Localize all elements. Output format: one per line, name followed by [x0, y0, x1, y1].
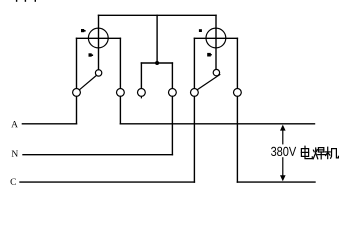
- wire: phase A right segment (welder top): [120, 123, 314, 125]
- wire: bracket right drop: [171, 63, 173, 88]
- meter M1 (left watt-hour meter circle): [88, 28, 108, 48]
- wire: right block right vertical (below terminal) to welder bottom: [236, 97, 238, 183]
- terminal T4: [169, 89, 177, 97]
- wire: left meter drop from bus through meter to hinge: [98, 15, 100, 69]
- char 机: [325, 151, 330, 153]
- wire: top bus: [99, 14, 217, 16]
- polarity mark M2 voltage coil: [207, 53, 212, 57]
- polarity mark M1 current coil: [81, 29, 86, 32]
- meter M2 (right watt-hour meter circle): [206, 28, 226, 48]
- terminal T1: [73, 89, 81, 97]
- char 焊: [312, 150, 315, 152]
- svg-text:C: C: [10, 178, 16, 188]
- switch S2 blade: [197, 75, 220, 90]
- wire: right meter drop from bus through meter to hinge: [215, 15, 217, 69]
- wire: left block right vertical (above terminal): [119, 38, 121, 88]
- switch S1 hinge: [95, 70, 101, 76]
- wire: phase A left segment: [22, 123, 76, 125]
- node: junction dot on bracket: [155, 61, 159, 65]
- wire: right block left vertical (below terminal) to C: [193, 97, 195, 183]
- wire: voltage-link bracket horizontal: [141, 62, 172, 64]
- top text fragment dots: [16, 0, 36, 2]
- terminal T2: [117, 89, 125, 97]
- wire: left block left vertical (above terminal): [76, 38, 78, 88]
- wire: phase N line: [23, 154, 172, 156]
- wire: left block right vertical (below terminal) to A: [119, 97, 121, 124]
- wire: right block horizontal through meter: [194, 37, 237, 39]
- wire: welder bottom line: [237, 181, 315, 183]
- switch S2 hinge: [213, 69, 219, 75]
- wire: middle voltage-link drop from bus: [156, 15, 158, 63]
- polarity mark M2 current coil: [199, 29, 202, 32]
- terminal T6: [234, 89, 242, 97]
- polarity mark M1 voltage coil: [89, 53, 94, 56]
- svg-text:A: A: [11, 120, 18, 130]
- wire: stub below T3: [140, 97, 142, 98]
- dimension arrow 380V (double headed): [282, 130, 284, 176]
- wire: right block left vertical (above terminal): [193, 38, 195, 88]
- wire: bracket left drop: [140, 63, 142, 88]
- label 电焊机 (hand drawn strokes): [301, 146, 338, 159]
- terminal T3: [138, 89, 146, 97]
- svg-text:380V: 380V: [271, 144, 297, 159]
- terminal T5: [191, 89, 199, 97]
- wire: N drop below middle-right terminal: [171, 97, 173, 155]
- wire: phase C line: [20, 181, 194, 183]
- wire: left block left vertical (below terminal) to A: [76, 97, 78, 124]
- svg-text:N: N: [11, 150, 18, 160]
- wire: left block horizontal through meter: [77, 37, 121, 39]
- char 电: [301, 149, 308, 157]
- wire: right block right vertical (above terminal): [236, 38, 238, 88]
- switch S1 blade: [79, 76, 96, 90]
